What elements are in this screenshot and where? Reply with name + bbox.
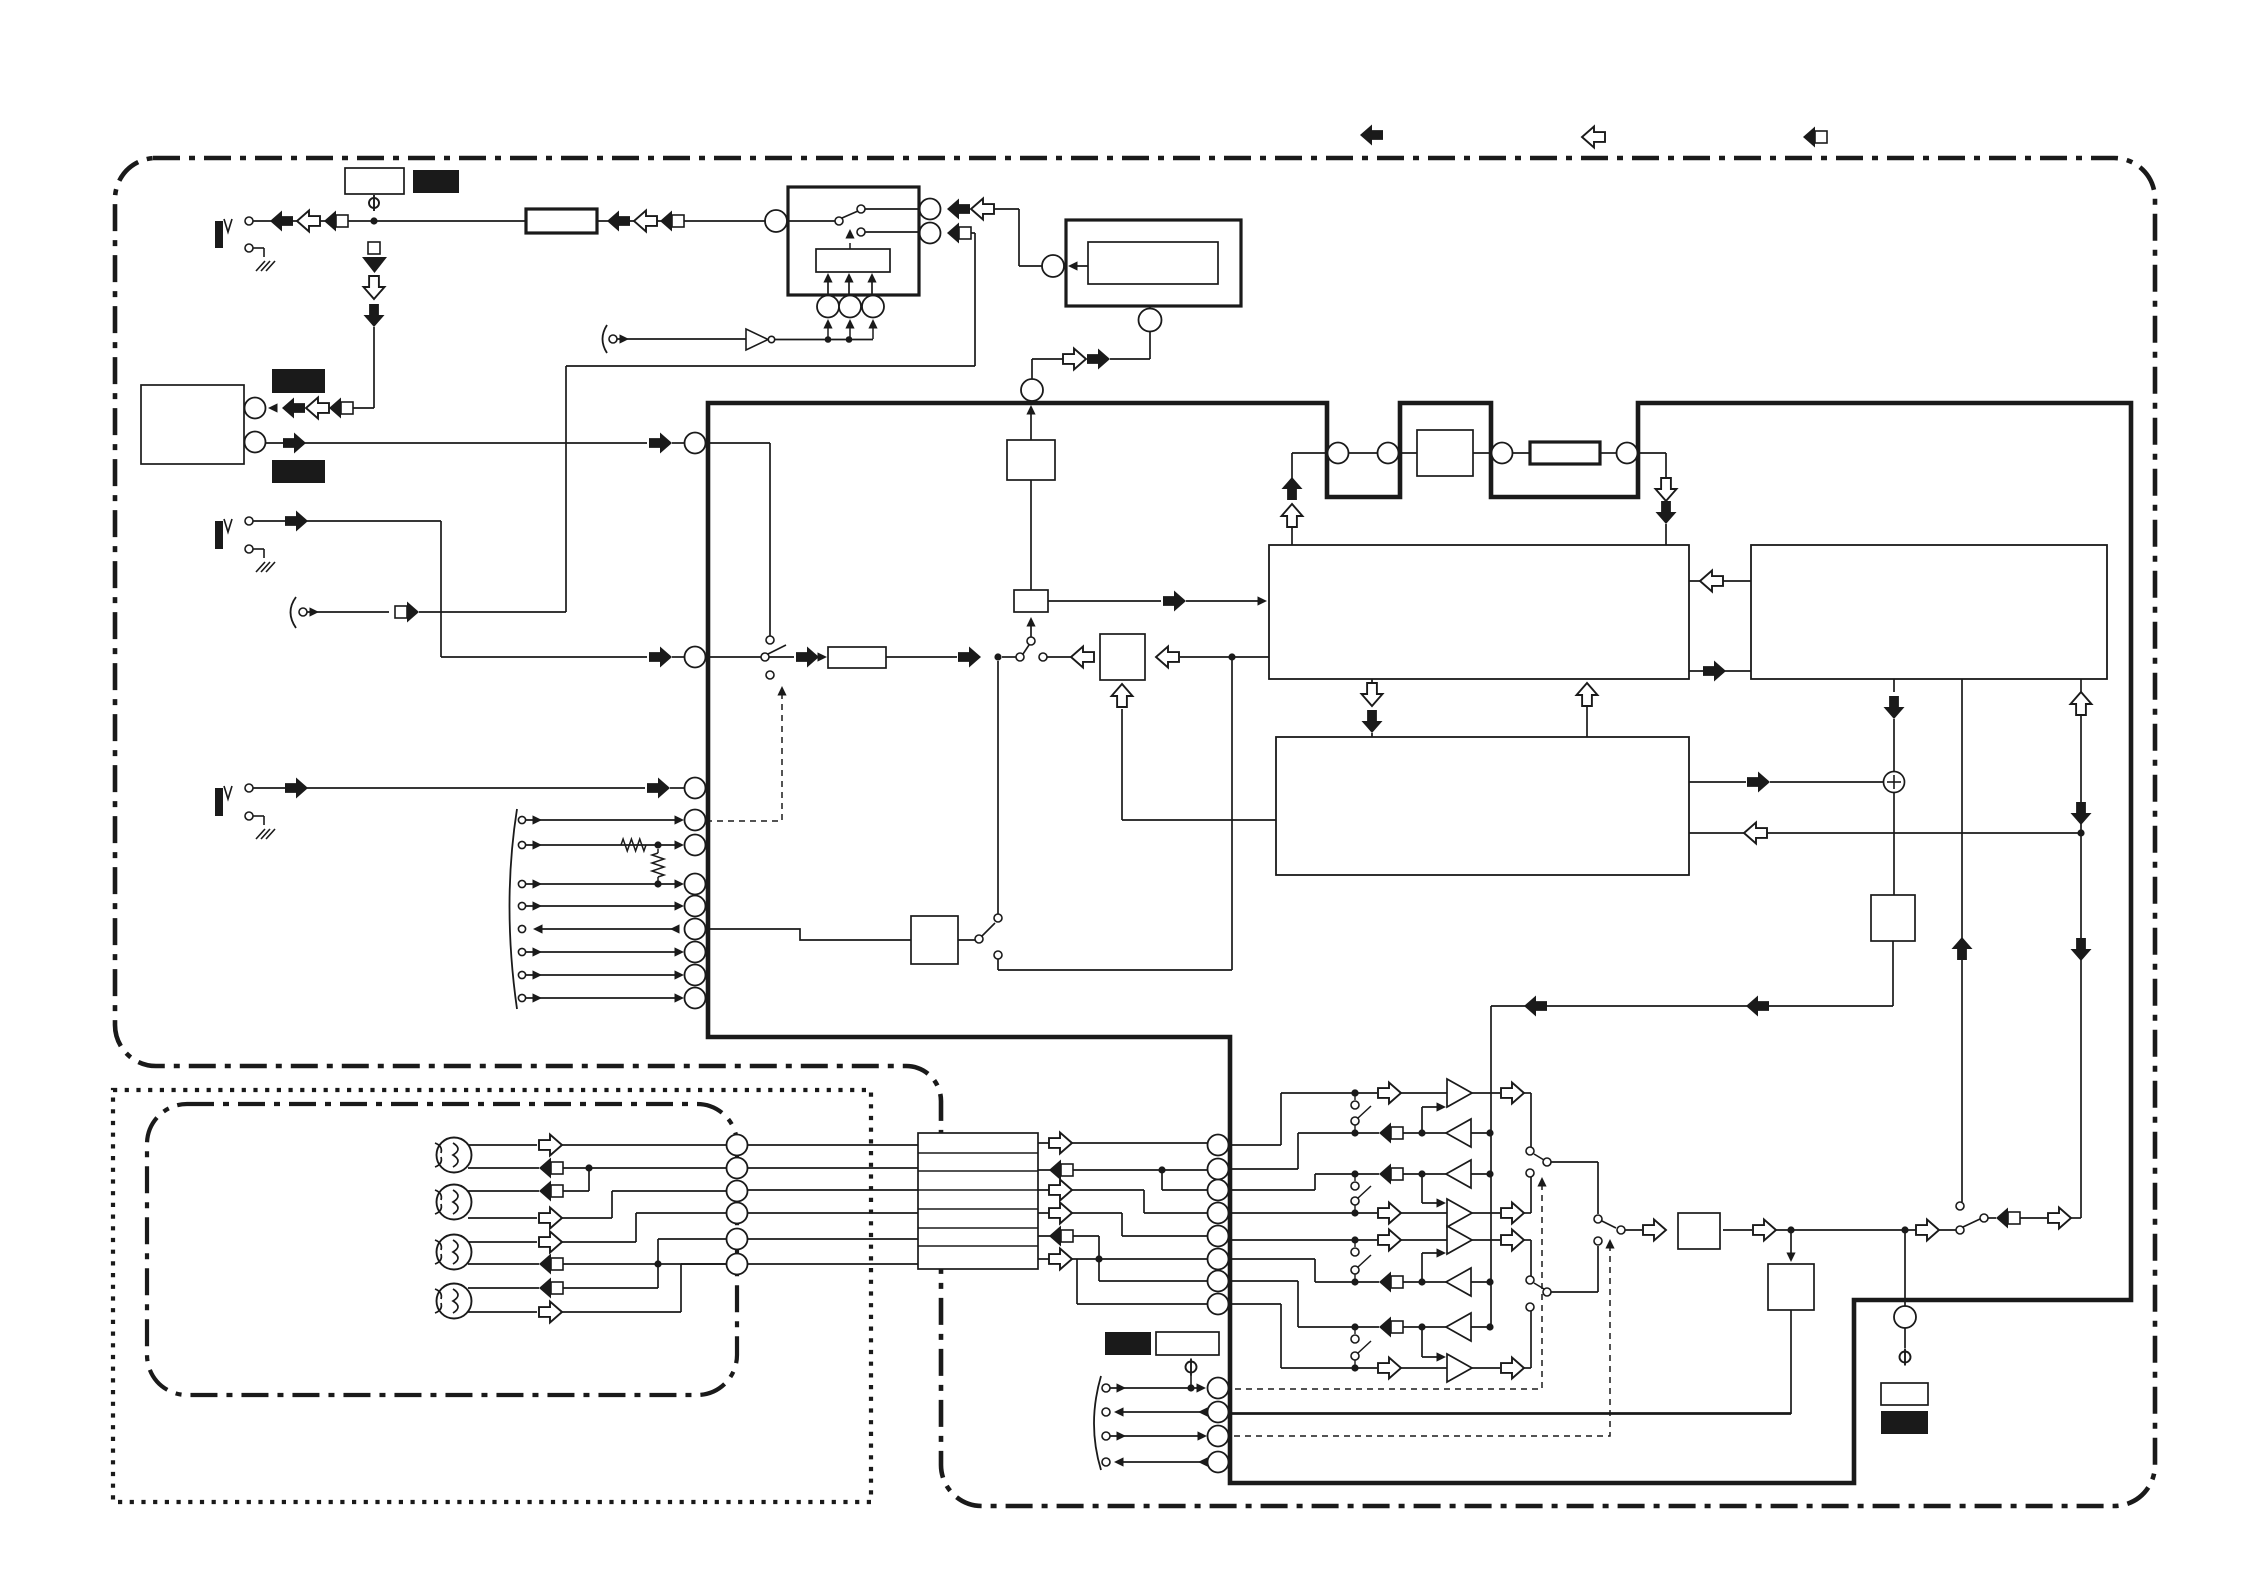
switch box right circles (920, 199, 941, 220)
control line y=845 (518, 841, 525, 848)
inverter (746, 329, 768, 350)
output select switch lower (1526, 1276, 1534, 1284)
matrix output wires (1038, 1142, 1207, 1144)
ground of J1 (253, 247, 264, 249)
control line y=929 (518, 925, 525, 932)
arrow square-tail left (329, 398, 353, 419)
selector switch (761, 653, 769, 661)
arrow black left to monitor circle (282, 398, 305, 419)
wire edge circle to selector (706, 656, 761, 658)
control line 1 (1102, 1384, 1110, 1392)
circle input 3 on main box edge (685, 778, 706, 799)
series resistor on control line 845 (621, 839, 646, 851)
jack J2 (215, 521, 223, 549)
logic box inside switch box (816, 249, 890, 272)
three sense lines (827, 277, 829, 295)
white label box bottom (1156, 1332, 1219, 1355)
headphone driver box (1678, 1213, 1720, 1249)
speaker 4 (437, 1284, 472, 1319)
selector upper contact riser (769, 443, 771, 636)
control connector bracket (510, 809, 518, 1009)
headphone jack circle (1904, 1230, 1906, 1306)
monitor block box (141, 385, 244, 464)
speaker relay box (911, 916, 958, 964)
white label box bottom right (1881, 1383, 1928, 1405)
output select switch upper (1526, 1147, 1534, 1155)
black label box above (272, 369, 325, 393)
long feedback vertical (1231, 657, 1233, 970)
three circles under switch box (817, 296, 839, 318)
speaker 2 (437, 1185, 472, 1220)
display box inner (1088, 242, 1218, 284)
left circle of switch box (765, 210, 787, 232)
arrow square-tail left (660, 211, 684, 232)
amp row F (1379, 1272, 1403, 1293)
control line 3 (1102, 1432, 1110, 1440)
wire attenuator to switch box (597, 220, 765, 222)
buffer box (1007, 440, 1055, 480)
amp row C (1379, 1164, 1403, 1185)
wire into monitor-out circle (352, 407, 374, 409)
speaker 3 (437, 1235, 472, 1270)
amp row B (1379, 1123, 1403, 1144)
outer dash-dot border (115, 158, 2155, 1506)
CPU vertical to output switch (1961, 679, 1963, 1202)
legend arrow square-tail (1803, 127, 1827, 148)
display box outer (1066, 220, 1241, 306)
wire CPU to DSP (1689, 580, 1751, 582)
system control box (1871, 895, 1915, 941)
DSP to DAC arrows (1371, 679, 1373, 683)
balance box (1100, 634, 1145, 680)
monitor select switch (1016, 653, 1024, 661)
junction node on J1 wire (370, 217, 377, 224)
CPU vertical to headphone path (2080, 679, 2082, 1218)
dashed actuator (849, 234, 851, 249)
dashed control to upper select (1235, 1181, 1542, 1389)
feedback wire into DAC (1689, 832, 2081, 834)
wire main node onward (1047, 656, 1071, 658)
wire J3 to main box (253, 787, 645, 789)
final output switch (1594, 1215, 1602, 1223)
riser from top-edge circle (1031, 359, 1033, 379)
amp row wires from circles (1229, 1144, 1281, 1146)
wire rec-select to DSP (1048, 600, 1161, 602)
amp row E (1378, 1230, 1401, 1251)
wire to main node (886, 656, 957, 658)
black label box top-left (413, 170, 459, 193)
DAC out to summing (1689, 781, 1746, 783)
white label box top-left (345, 168, 404, 194)
dotted speaker-section border (113, 1090, 871, 1502)
tape eq thick box (1530, 442, 1600, 464)
control line y=998 (518, 994, 525, 1001)
wire J2 to main box (253, 520, 441, 522)
riser to rec select box (1030, 622, 1032, 637)
circle input L on main box edge (685, 433, 706, 454)
arrow square-tail left on J1 wire (324, 211, 348, 232)
record wire riser (565, 366, 567, 612)
main box edge circles (8) (1208, 1135, 1229, 1156)
jack J1 (215, 221, 223, 248)
DAC to DSP arrow (1577, 683, 1598, 706)
switch inside (835, 217, 843, 225)
arrow hollow left on J1 wire (297, 211, 320, 232)
rec out switch (994, 951, 1002, 959)
ground of J2 (253, 548, 264, 550)
black label box bottom (1105, 1332, 1151, 1355)
wires circles to matrix (748, 1144, 918, 1146)
rec select box (1014, 590, 1048, 612)
tape loop left riser (1291, 453, 1293, 479)
control line y=952 (518, 948, 525, 955)
arrow black left (607, 211, 630, 232)
control line y=975 (518, 971, 525, 978)
amp row D (1378, 1203, 1401, 1224)
node before processor (1228, 653, 1235, 660)
ground of J3 (253, 815, 264, 817)
relay matrix box (918, 1133, 1038, 1269)
selector output wire (769, 656, 794, 658)
vertical branch from J1 node (368, 242, 380, 254)
input level box (828, 647, 886, 668)
CPU box (1751, 545, 2107, 679)
dashed control to final switch (1234, 1243, 1610, 1436)
legend arrow hollow (1582, 127, 1605, 148)
wire display to circle (1070, 265, 1088, 267)
inter-row switches at amp input column (1351, 1089, 1358, 1096)
arrow hollow left (634, 211, 657, 232)
tape dolby box (1417, 430, 1473, 476)
function switch box (788, 187, 919, 295)
main unit thick outline (708, 403, 2131, 1483)
wire monitor to main box (266, 442, 647, 444)
circle input 2 on main box edge (685, 647, 706, 668)
jack J3 (215, 788, 223, 816)
phono ground terminal symbol (369, 198, 379, 208)
record-out connector bracket (291, 597, 297, 628)
arrowheads into circles (827, 327, 829, 339)
wire DSP to CPU (1689, 670, 1751, 672)
circle below display box (1139, 309, 1162, 332)
black label box below (272, 460, 325, 483)
system box to amp column (1892, 941, 1894, 1006)
amp row H (1378, 1358, 1401, 1379)
monitor out circle (245, 398, 266, 419)
protection box (1790, 1230, 1792, 1257)
shunt resistor to line 884 (657, 849, 659, 853)
wire from control circle to relay box (706, 929, 911, 940)
amp row G (1379, 1317, 1403, 1338)
phone symbol bottom (1186, 1362, 1197, 1373)
speaker terminal circles (727, 1135, 748, 1156)
dashed control line to input switch (706, 690, 782, 821)
control line y=820 (518, 816, 525, 823)
wire circle to switch box arrows (1019, 265, 1042, 267)
control line 4 (1102, 1458, 1110, 1466)
output relay switch (1956, 1202, 1964, 1210)
summing node circle-plus (1884, 772, 1905, 793)
arrow hollow left (306, 398, 329, 419)
wire record-out (307, 611, 389, 613)
control line y=884 (518, 880, 525, 887)
amp row A (1351, 1089, 1358, 1096)
DAC box (1276, 737, 1689, 875)
square-tail right arrow on record wire (395, 602, 419, 623)
control line 2 (1102, 1408, 1110, 1416)
arrow black left on J1 wire (270, 211, 293, 232)
main node (994, 653, 1001, 660)
monitor in circle (245, 432, 266, 453)
summing to system box (1893, 792, 1895, 895)
speaker 1 (437, 1138, 472, 1173)
mute line from inverter (603, 325, 608, 353)
tape loop right riser (1665, 453, 1667, 479)
speaker dash-dot rounded border (147, 1104, 737, 1395)
CPU to summing node (1893, 679, 1895, 692)
black label box bottom right (1881, 1411, 1928, 1434)
control line y=906 (518, 902, 525, 909)
balance feedback riser (1112, 684, 1133, 707)
circle on main box top edge (1021, 379, 1043, 401)
tape row wire and circles (1292, 452, 1327, 454)
DSP box (1269, 545, 1689, 679)
legend arrow black (1360, 125, 1383, 146)
wire J1 to attenuator (253, 220, 526, 222)
speaker wires (468, 1144, 537, 1146)
control bracket bottom (1094, 1376, 1101, 1470)
attenuator thick box (526, 209, 597, 233)
